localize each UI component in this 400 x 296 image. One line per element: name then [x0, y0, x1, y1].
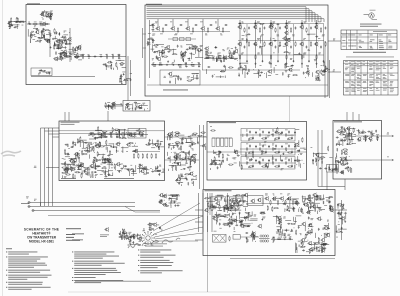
- resistor R (filter mid infill): [277, 128, 278, 131]
- wire key jack to board: [10, 21, 26, 23]
- value label (driver lower left): [81, 172, 84, 175]
- value label (driver tube lower): [185, 153, 187, 156]
- capacitor C (osc stage 2): [30, 35, 32, 37]
- rectifier block a: [233, 199, 236, 201]
- capacitor C (driver center-left infill): [67, 153, 69, 155]
- filter C row2 col4: [291, 151, 293, 153]
- wire (driver lower left): [111, 154, 113, 156]
- wire (driver lower left): [112, 172, 114, 175]
- value label (key jack area): [22, 24, 24, 27]
- value label (PS mid right): [320, 218, 322, 221]
- resistor R (driver tube upper): [172, 132, 173, 135]
- capacitor C (PS mid): [224, 216, 226, 218]
- label Q205: [273, 193, 275, 196]
- wire (osc stage 3): [58, 39, 65, 41]
- regulator sub-box 3: [248, 196, 264, 206]
- wire (driver lower left): [109, 175, 114, 177]
- wire (driver tube lower): [190, 157, 192, 165]
- capacitor C (osc bottom right parts): [120, 76, 122, 78]
- pilot lamp label above: [370, 9, 376, 12]
- wire osc vertical 2: [49, 30, 51, 57]
- wire (sidetone left parts): [107, 104, 109, 108]
- filter C2 row2 col4: [288, 145, 290, 147]
- node (meter upper stage): [345, 131, 348, 134]
- capacitor C (driver lower right): [133, 169, 135, 171]
- value label (PS top left): [214, 206, 217, 209]
- capacitor C (driver center-left infill): [72, 142, 74, 144]
- value label (osc right edge parts): [108, 65, 111, 68]
- node (driver right parts): [155, 146, 158, 149]
- value label col 5d: [306, 64, 309, 67]
- lamp chart column rule 2: [350, 30, 352, 50]
- wire (driver tube below): [179, 178, 186, 180]
- capacitor C stage: [165, 24, 167, 26]
- filter C2 row1 col1: [249, 131, 251, 133]
- ground (relay K1 parts): [48, 71, 50, 72]
- transistor Q (sidetone parts): [139, 105, 142, 108]
- capacitor C (sidetone left parts): [113, 103, 115, 105]
- value label col 6b: [318, 37, 320, 40]
- value label (driver lower left): [72, 161, 75, 164]
- capacitor C (driver tube upper): [203, 144, 205, 146]
- filter L row1 col1: [247, 134, 248, 135]
- wire (meter upper stage): [346, 144, 351, 146]
- power supply board title: [205, 189, 232, 192]
- resistor R (driver input chain): [128, 134, 131, 135]
- wire right margin vertical 2: [329, 60, 331, 98]
- wire (relay K1 parts): [43, 71, 52, 73]
- value label fuse: [210, 125, 212, 128]
- capacitor C (meter upper stage): [336, 137, 338, 139]
- filter label b r2c1: [248, 152, 250, 155]
- bus wire 4 drop: [314, 13, 316, 22]
- antenna meter board outline: [333, 121, 382, 180]
- resistor R (driver lower left): [79, 166, 82, 167]
- node (sidetone parts): [143, 102, 146, 105]
- filter R row3 col4: [289, 166, 292, 167]
- wire (PS mid left infill): [233, 227, 235, 230]
- ground (driver lower right): [159, 170, 161, 171]
- wire (driver center-left infill): [87, 141, 92, 143]
- capacitor C stage: [225, 24, 227, 26]
- wire (B bottom row parts): [266, 72, 268, 78]
- wire (sidetone parts): [127, 104, 132, 106]
- wire (driver lower right): [123, 165, 125, 168]
- value label (grid infill): [242, 34, 245, 37]
- wire accessory: [46, 167, 59, 169]
- wire osc right drop B: [130, 60, 132, 96]
- node (relay K1 parts): [43, 69, 46, 72]
- wire (PS top mid infill): [292, 198, 299, 200]
- resistor R (driver lower left): [105, 160, 108, 161]
- wire (filter left parts): [220, 164, 222, 168]
- value label (filter left parts): [234, 162, 237, 165]
- value label (low pass parts): [192, 73, 195, 76]
- wire (key jack area): [9, 21, 11, 28]
- wire (driver lower left): [96, 159, 98, 162]
- transistor Q (PS top left): [205, 209, 208, 212]
- resistor R (stage right of crystals): [207, 52, 208, 55]
- value label (right margin parts): [325, 66, 327, 69]
- value label (B right mid chain): [212, 59, 215, 62]
- node (driver tube lower): [170, 151, 173, 154]
- filter C2 row1 col2: [262, 131, 264, 133]
- capacitor C stage: [210, 24, 212, 26]
- wire (osc buffer): [78, 59, 82, 61]
- capacitor C (driver lower right): [155, 168, 157, 170]
- transistor Q (osc stage 1): [48, 13, 51, 16]
- filter label b r2c2: [261, 152, 263, 155]
- wire PS top divider: [209, 193, 211, 215]
- resistor R (B lower chain): [159, 64, 162, 65]
- transistor Q15 upper: [315, 26, 318, 29]
- value label (PS mid left infill): [218, 213, 221, 216]
- filter dot row3 col4: [291, 162, 294, 165]
- resistor R (filter mid infill): [245, 153, 246, 156]
- wire (driver lower left): [76, 152, 78, 158]
- wire (PS mid): [251, 211, 253, 216]
- node (filter right parts): [297, 153, 300, 156]
- value label (B bottom row parts): [285, 69, 288, 72]
- value label (driver mid stage): [92, 145, 95, 148]
- value label (driver lower left): [100, 163, 102, 166]
- wire loom top 2: [45, 130, 60, 132]
- filter C row2 col3: [278, 151, 280, 153]
- resistor R (driver lower left): [67, 174, 70, 175]
- inductor L (osc right edge parts): [105, 63, 106, 64]
- wire (osc buffer): [56, 44, 63, 46]
- value label (driver lower right): [119, 163, 122, 166]
- value label (driver tube lower): [181, 168, 183, 171]
- capacitor col 5b: [306, 46, 308, 48]
- inductor L (meter lower stage): [337, 148, 338, 149]
- capacitor C (PS mid): [232, 213, 234, 215]
- wire (driver mid stage): [132, 145, 138, 147]
- wire (driver center-left infill): [83, 142, 87, 144]
- wire crystal row: [168, 38, 196, 40]
- transistor Q (meter lower stage): [340, 161, 343, 164]
- node (driver mid stage): [134, 142, 137, 145]
- wire (PS top left): [217, 194, 223, 196]
- value label (osc stage 3): [52, 38, 54, 41]
- filter dot row2 col4: [291, 148, 294, 151]
- wire (grid infill): [270, 38, 272, 42]
- value label (left edge parts): [147, 41, 150, 44]
- capacitor C (PS top right): [329, 205, 331, 207]
- wire (osc stage 1): [47, 16, 52, 18]
- capacitor C (PS top right): [329, 200, 331, 202]
- wire (meter lower stage): [336, 156, 338, 159]
- resistor R (osc stage 2): [38, 40, 41, 41]
- capacitor C (driver mid stage): [135, 149, 137, 151]
- resistor R (driver input chain): [92, 134, 95, 135]
- resistor R stage: [177, 29, 178, 32]
- value label (osc stage 2): [31, 30, 34, 33]
- wire (driver tube upper): [185, 141, 191, 143]
- value label (PS top right): [301, 208, 303, 211]
- capacitor C (filter left parts): [211, 163, 213, 165]
- wire (PS mid): [220, 216, 225, 218]
- value label (PS top left): [243, 194, 245, 197]
- capacitor C (driver lower left): [73, 161, 75, 163]
- relay label 2: [333, 69, 335, 72]
- transistor Q (PS mid): [259, 225, 262, 228]
- node (osc stage 1): [43, 9, 46, 12]
- transistor Q top row: [172, 27, 175, 30]
- resistor R (B lower chain): [198, 63, 199, 66]
- node (osc right edge parts): [121, 63, 124, 66]
- transistor Q (driver lower right): [143, 167, 146, 170]
- resistor R (PS top left): [237, 204, 238, 207]
- wire osc bottom: [31, 76, 95, 78]
- resistor R (meter lower stage): [342, 164, 345, 165]
- wire (driver tube lower): [174, 153, 179, 155]
- resistor R (osc output row): [118, 55, 119, 58]
- capacitor C (driver lower left): [105, 176, 107, 178]
- value label (osc right edge parts): [121, 61, 123, 64]
- transistor Q (osc buffer): [75, 48, 78, 51]
- filter dot row3 col1: [252, 162, 255, 165]
- value label (driver input chain): [134, 131, 137, 134]
- value label (PS mid right): [284, 216, 286, 219]
- value label (B bottom row parts): [275, 73, 278, 76]
- resistor R (grid infill): [283, 38, 286, 39]
- wire (osc stage 2): [46, 33, 50, 35]
- resistor R (B lower chain): [186, 63, 187, 66]
- value label (driver tube below): [185, 176, 187, 179]
- value label (driver right parts): [153, 143, 155, 146]
- capacitor C (meter right parts): [358, 129, 360, 131]
- wire (driver lower right): [138, 168, 140, 174]
- wire (driver stage mid): [186, 44, 193, 46]
- value label (driver lower left): [87, 172, 90, 175]
- value label (osc stage 3): [57, 44, 59, 47]
- label Q207: [288, 193, 291, 196]
- value label (PS mid): [233, 212, 236, 215]
- wire (driver tube upper): [176, 133, 180, 135]
- value label (PS top left): [220, 209, 222, 212]
- capacitor C (low pass parts): [169, 81, 171, 83]
- crystal Y2 box: [180, 38, 185, 41]
- capacitor C (driver tube lower): [182, 151, 184, 153]
- wire (B bottom row parts): [220, 71, 224, 73]
- value label (driver mid stage): [95, 141, 97, 144]
- ground (osc stage 3): [62, 36, 64, 37]
- resistor R (B bottom right parts): [321, 71, 322, 74]
- capacitor C (B bottom row parts): [291, 65, 293, 67]
- value label col 1a2: [246, 34, 248, 37]
- wire (PS mid right): [323, 234, 325, 239]
- wire (PS mid): [247, 215, 249, 221]
- wire (driver stage mid): [195, 48, 197, 54]
- resistor R (osc buffer): [67, 56, 70, 57]
- capacitor C (osc buffer): [74, 49, 76, 51]
- voltage chart column rule 5: [373, 61, 375, 96]
- value label (B lower chain): [172, 61, 174, 64]
- capacitor C (B right mid chain): [212, 57, 214, 59]
- value label col 3c: [273, 52, 275, 55]
- rectifier block b: [237, 199, 240, 201]
- capacitor C (PS top left): [234, 202, 236, 204]
- resistor R (driver lower left): [73, 175, 74, 178]
- wire (driver stage mid): [194, 47, 198, 49]
- capacitor C (relay K2 parts): [335, 167, 337, 169]
- transistor Q (grid infill): [285, 31, 288, 34]
- wire (PS mid right): [284, 229, 290, 231]
- resistor R (driver input stage): [104, 136, 107, 137]
- capacitor C (osc stage 3): [62, 41, 64, 43]
- value label (B lower chain): [153, 61, 155, 64]
- value label col 2d: [260, 64, 262, 67]
- resistor R (PS mid left infill): [241, 222, 242, 225]
- resistor R (sidetone left parts): [105, 104, 106, 107]
- capacitor C (PS mid right): [308, 217, 310, 219]
- capacitor col 2a: [264, 27, 266, 29]
- J-plug labels: [26, 196, 29, 199]
- wire (driver tube lower): [180, 164, 186, 166]
- transistor Q (PS mid right): [279, 219, 282, 222]
- value label (driver input chain): [98, 131, 101, 134]
- resistor R (filter right parts): [297, 160, 300, 161]
- wire (PS top left): [227, 199, 229, 206]
- filter C3 row3 col3: [281, 159, 283, 161]
- resistor R (meter upper stage): [348, 136, 349, 139]
- capacitor C (driver lower right): [124, 165, 126, 167]
- value label (stage right of crystals): [222, 48, 224, 51]
- resistor R (driver mid stage): [106, 141, 107, 144]
- value label (osc output row): [112, 53, 114, 56]
- wire (PS top left): [237, 209, 242, 211]
- regulator sub-box 2: [229, 197, 243, 206]
- resistor R (driver center-left infill): [80, 141, 83, 142]
- value label (PS top right): [318, 196, 321, 199]
- transistor Q17 lower: [254, 43, 257, 46]
- oscillator board title: [27, 3, 40, 4]
- voltage chart cell text: [345, 60, 348, 63]
- node (osc stage 1): [50, 13, 53, 16]
- value label (driver input chain): [140, 135, 143, 138]
- resistor R (driver lower left): [76, 172, 79, 173]
- transistor Q (PS mid right): [309, 224, 312, 227]
- wire J bend 2: [135, 211, 160, 213]
- relay label 1: [333, 38, 335, 41]
- page left edge shadow: [2, 0, 4, 296]
- wire (driver lower left): [69, 163, 75, 165]
- resistor R (osc stage 3): [64, 37, 65, 40]
- value label (driver stage mid): [158, 49, 161, 52]
- ground (filter left parts): [218, 150, 220, 151]
- resistor R (driver lower left): [71, 169, 74, 170]
- value label (meter upper stage): [338, 140, 341, 143]
- value label (B lower chain): [192, 65, 195, 68]
- transistor Q11 upper: [254, 26, 257, 29]
- capacitor col 4b: [290, 46, 292, 48]
- wire (driver tube lower): [189, 168, 191, 171]
- wire (osc buffer): [70, 51, 74, 53]
- wire (driver lower right): [131, 172, 137, 174]
- value label (B bottom right parts): [323, 70, 326, 73]
- wire (osc stage 3): [57, 41, 61, 43]
- wire (osc stage 3): [56, 44, 58, 49]
- resistor R (B bottom row parts): [258, 70, 259, 73]
- wire (sidetone parts): [139, 104, 147, 106]
- wire (PS top right): [307, 202, 309, 207]
- node (filter mid infill): [247, 161, 250, 164]
- wire (driver tube below): [180, 177, 182, 180]
- node (PS top left): [209, 204, 212, 207]
- resistor R (filter left parts): [222, 155, 223, 158]
- resistor R (driver tube below): [186, 174, 189, 175]
- wire (driver mid stage): [115, 147, 117, 153]
- value label (osc bias row): [28, 21, 30, 24]
- value label (osc buffer): [61, 49, 63, 52]
- transistor Q driver 4: [91, 165, 94, 168]
- wire (PS top left): [206, 200, 215, 202]
- value label (grid infill): [241, 52, 243, 55]
- value label (osc stage 1): [50, 12, 53, 15]
- resistor R (meter lower stage): [341, 151, 342, 154]
- value label (driver lower right): [130, 164, 132, 167]
- resistor R (osc bias row): [34, 23, 37, 24]
- resistor R (driver stage mid): [154, 45, 157, 46]
- value label (driver lower right): [150, 167, 152, 170]
- inductor L (PS mid right): [284, 233, 285, 234]
- wire (PS mid): [245, 217, 247, 222]
- value label (osc output row): [88, 53, 90, 56]
- value label (driver mid stage): [116, 150, 119, 153]
- resistor R (osc stage 2): [31, 34, 32, 37]
- ground col 3: [270, 63, 272, 64]
- resistor R (PS top right): [317, 195, 320, 196]
- transistor Q driver 1: [96, 145, 99, 148]
- node (osc stage 3): [66, 38, 69, 41]
- wire (PS top right): [326, 197, 334, 199]
- value label (driver tube upper): [189, 144, 192, 147]
- value label (PS top right): [319, 206, 321, 209]
- wire (osc stage 2): [47, 41, 50, 43]
- value label (driver lower right): [147, 168, 150, 171]
- ground col 2b: [262, 60, 264, 61]
- wire (PS mid right): [276, 226, 280, 228]
- voltage chart row rule 3: [344, 87, 399, 89]
- resistor R (PS mid right): [281, 225, 282, 228]
- wire (meter upper stage): [354, 134, 357, 136]
- value label (driver tube below): [181, 174, 183, 177]
- wire (driver input stage): [119, 128, 127, 130]
- wire (PS top right): [329, 196, 333, 198]
- resistor column 2b: [255, 56, 256, 59]
- wire (driver lower left): [95, 163, 97, 169]
- resistor R comb 3: [142, 155, 143, 158]
- resistor R (B bottom row parts): [229, 67, 232, 68]
- wire G down: [127, 96, 129, 101]
- value label (B lower chain): [153, 65, 156, 68]
- wire B to relay 2: [328, 71, 341, 73]
- capacitor C (B bottom row parts): [238, 74, 240, 76]
- resistor R (meter lower stage): [344, 149, 347, 150]
- resistor R (osc stage 2): [39, 37, 42, 38]
- wire (driver lower right): [135, 165, 137, 171]
- wire (PS top right): [302, 196, 306, 198]
- value label (driver center-left infill): [73, 141, 76, 144]
- wire (B bottom row parts): [253, 72, 258, 74]
- wire (PS top left): [224, 207, 226, 212]
- bus wire 5 drop: [317, 15, 319, 22]
- capacitor C (filter left parts): [212, 161, 214, 163]
- capacitor C (B bottom row parts): [223, 65, 225, 67]
- node (PS top mid infill): [292, 205, 295, 208]
- operating voltage chart caption: [353, 51, 386, 54]
